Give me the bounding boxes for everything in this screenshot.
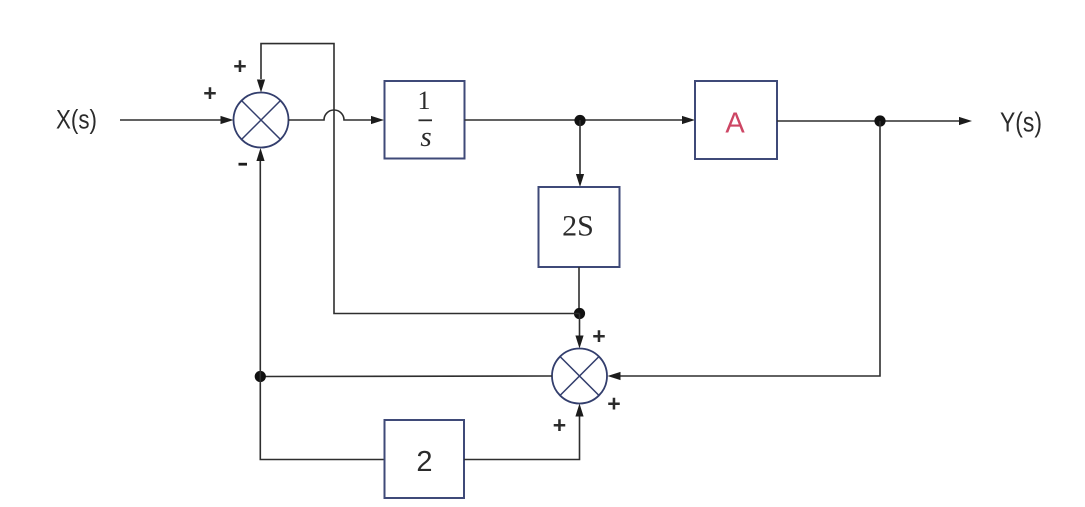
svg-text:+: + [553, 412, 566, 438]
svg-text:s: s [420, 121, 431, 153]
svg-text:+: + [233, 53, 246, 79]
junction node left (feedback split) [255, 371, 266, 382]
svg-text:Y(s): Y(s) [1000, 107, 1042, 138]
svg-text:+: + [607, 391, 620, 417]
wire left node down and right into block 2 [260, 377, 384, 460]
wire S2 output to left node [260, 375, 552, 378]
junction node below 2S [574, 308, 585, 319]
wire right feedback from output node down and into S2 right [608, 121, 881, 380]
summing junction S2 [552, 349, 607, 404]
wire left node up into S1 bottom (minus input) [256, 148, 264, 377]
summing junction S1 [234, 93, 289, 148]
svg-text:2S: 2S [562, 210, 594, 243]
wire 1/s to block A [465, 116, 696, 124]
block 1/s (integrator) [385, 81, 465, 159]
sign - (bottom input of S1) [239, 163, 248, 166]
wire input X(s) to summing junction S1 [120, 116, 234, 124]
wire node down into S2 top [575, 314, 583, 349]
wire block 2 output up into S2 bottom [464, 404, 584, 460]
wire S1 to block 1/s (with hop over feedback line) [289, 110, 385, 124]
svg-text:+: + [203, 80, 216, 106]
svg-text:+: + [592, 323, 605, 349]
junction node on output line (takeoff to right feedback) [874, 115, 885, 126]
wire A to output Y(s) [777, 117, 972, 125]
svg-text:1: 1 [418, 86, 431, 115]
svg-text:2: 2 [416, 446, 432, 478]
wire feedback from node to top of S1 (left long path) [257, 44, 580, 314]
svg-text:A: A [725, 108, 745, 140]
svg-text:X(s): X(s) [56, 105, 97, 135]
wire takeoff down to block 2S [576, 120, 584, 187]
junction node on main line (takeoff to 2S) [574, 115, 585, 126]
block A (gain A) [695, 81, 777, 159]
wire 2S output down to junction node [578, 267, 580, 314]
block 2 (gain 2) [385, 420, 465, 498]
block 2S (derivative gain) [539, 187, 620, 267]
